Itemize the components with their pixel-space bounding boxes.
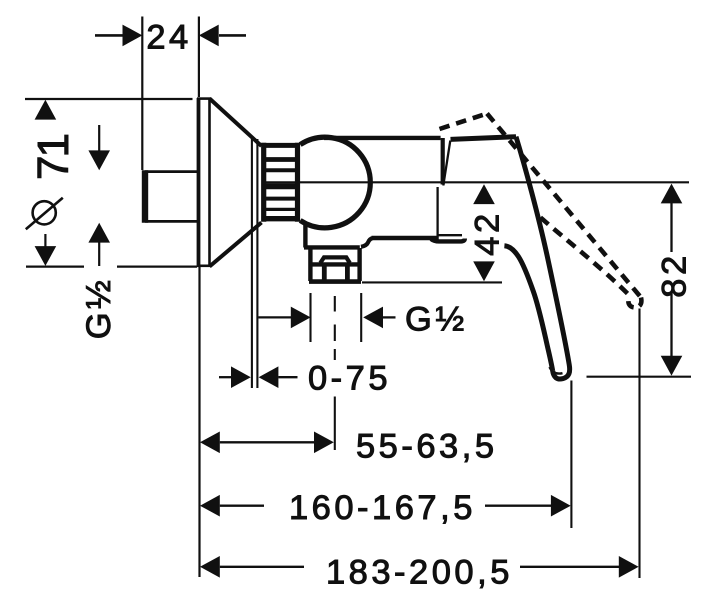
dim 24 right extension line <box>198 17 200 98</box>
dim 55-63,5 line <box>220 441 314 443</box>
svg-text:82: 82 <box>656 252 694 297</box>
valve body sphere (clipped left) <box>300 137 370 228</box>
outlet vertical centerline segment 3 <box>334 349 336 360</box>
dim 82 down arrow <box>661 356 683 376</box>
dim 183-200,5 right arrow <box>619 556 639 578</box>
dim 24 left tail <box>95 34 123 37</box>
escutcheon top closure <box>197 97 211 100</box>
escutcheon travel double line 1 <box>251 139 253 388</box>
knurled nut top edge <box>262 143 301 148</box>
dim 24 right tail <box>219 34 246 37</box>
dia71 diameter symbol circle <box>33 201 56 224</box>
escutcheon bottom closure <box>197 264 211 267</box>
body left drop above outlet <box>303 224 307 248</box>
dim 42 down arrow <box>473 261 495 281</box>
dim 24 left extension line <box>141 17 143 171</box>
dim 0-75 left tail <box>219 376 231 378</box>
dim 0-75 right arrow <box>259 366 279 388</box>
escutcheon cone bottom slope <box>210 223 262 267</box>
body underside main <box>372 236 438 240</box>
lever alternate position dashed inner edge <box>541 218 630 296</box>
outlet cup bottom <box>309 279 361 284</box>
knurled nut right edge <box>295 143 300 222</box>
dim 160-167,5 left tail <box>220 505 264 507</box>
outlet thread dim right arrow <box>363 307 383 329</box>
dim 82 upper stem <box>670 203 672 252</box>
outlet thread dim left extension <box>309 293 311 342</box>
pipe thread dim up arrow <box>88 223 110 243</box>
lever alternate position dashed top edge <box>440 114 488 130</box>
lever handle outer edge and tip <box>516 137 570 379</box>
outlet vertical centerline segment 1 <box>334 296 336 312</box>
dia71 up arrow <box>35 100 57 120</box>
dim 55-63,5 left arrow <box>200 432 220 454</box>
lever handle top edge <box>451 137 517 140</box>
dim 183-200,5 left tail <box>220 566 304 568</box>
body underside s-curve to outlet <box>361 238 373 247</box>
svg-text:24: 24 <box>146 18 191 56</box>
svg-text:183-200,5: 183-200,5 <box>326 554 513 592</box>
lever alternate position dashed long edge <box>487 114 641 298</box>
svg-text:G½: G½ <box>80 277 118 340</box>
dim 160-167,5 extension line <box>570 381 572 529</box>
body end face <box>436 187 438 240</box>
outlet hex left facet line <box>322 266 327 281</box>
dia71 lower stub <box>44 234 46 247</box>
outlet vertical centerline segment 4 <box>334 397 336 451</box>
dim 55-63,5 right arrow <box>314 432 334 454</box>
outlet thread dim right tail <box>383 316 396 318</box>
dim 42 up arrow <box>473 184 495 204</box>
supply pipe top edge <box>145 170 198 173</box>
outlet cup left edge <box>308 248 312 281</box>
dim 183-200,5 right tail <box>520 566 619 568</box>
dim 160-167,5 right tail <box>485 505 551 507</box>
pipe thread dim down arrow <box>88 150 110 170</box>
knurled nut rib 1 <box>266 157 295 162</box>
lever tip inner detail arc <box>550 367 563 374</box>
dim 183-200,5 left arrow <box>200 556 220 578</box>
outlet hex top bump <box>320 257 350 263</box>
dia71 top reference line <box>25 98 193 100</box>
pipe thread dim upper stem <box>98 125 100 151</box>
svg-text:71: 71 <box>29 135 78 180</box>
wall plate escutcheon inner vertical <box>208 98 211 267</box>
dim 24 right arrow <box>199 25 219 47</box>
dia71 bottom reference line left part <box>26 266 84 268</box>
dim 82 up arrow <box>661 184 683 204</box>
knurled nut rib 3 <box>266 183 295 189</box>
outlet vertical centerline segment 2 <box>334 325 336 342</box>
dim 183-200,5 extension line <box>638 309 640 579</box>
body top edge <box>324 136 441 140</box>
knurled nut rib 5 <box>266 208 295 211</box>
body underside lower shelf <box>304 245 360 249</box>
svg-text:160-167,5: 160-167,5 <box>289 489 476 527</box>
body seam line above rear skirt <box>439 234 463 236</box>
lever alternate position dashed tip <box>628 296 641 308</box>
wall plate escutcheon left face <box>197 98 201 267</box>
wall face extension line down <box>198 267 200 577</box>
svg-text:0-75: 0-75 <box>308 360 391 398</box>
lever handle inner edge <box>504 246 552 371</box>
dia71 diameter symbol slash <box>26 198 63 230</box>
escutcheon travel double line 2 <box>256 139 258 388</box>
knurled nut bottom edge <box>262 216 301 221</box>
svg-text:G½: G½ <box>405 301 468 339</box>
knurled nut rib 4 <box>266 197 295 201</box>
outlet thread dim left tail <box>259 316 292 318</box>
pipe thread dim lower stem <box>98 242 100 266</box>
body/handle gap thick vertical <box>441 138 445 185</box>
body rear bottom skirt <box>431 239 465 242</box>
dim 160-167,5 left arrow <box>200 495 220 517</box>
dim 24 left arrow <box>123 25 143 47</box>
dia71 down arrow <box>35 246 57 266</box>
outlet bottom reference line <box>362 281 502 283</box>
handle front wedge diagonal <box>443 141 450 186</box>
outlet hex mid band <box>310 262 360 266</box>
lever bottom reference line <box>587 376 692 378</box>
supply pipe bottom edge <box>145 220 198 223</box>
dim 0-75 right tail <box>278 376 297 378</box>
dia71 bottom reference line right part <box>117 266 197 268</box>
svg-text:42: 42 <box>469 210 507 255</box>
outlet thread dim right extension <box>360 293 362 342</box>
supply pipe nipple end cap <box>142 170 148 223</box>
outlet thread dim left arrow <box>291 307 311 329</box>
knurled nut rib 2 <box>266 168 295 172</box>
outlet cup right edge <box>357 248 361 281</box>
outlet hex right facet line <box>345 266 350 281</box>
dim 0-75 left arrow <box>231 366 251 388</box>
escutcheon cone top slope <box>210 99 262 147</box>
knurled nut left edge <box>261 143 266 222</box>
svg-text:55-63,5: 55-63,5 <box>356 427 498 465</box>
dim 82 lower stem <box>670 293 672 356</box>
dim 160-167,5 right arrow <box>551 495 571 517</box>
horizontal centerline through body <box>262 181 689 183</box>
